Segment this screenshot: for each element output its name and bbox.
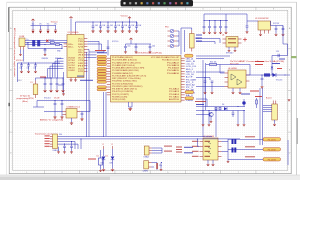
svg-text:DCD: DCD (78, 68, 84, 70)
svg-text:P1.5/MOSI AIN5 (KEY4 D6): P1.5/MOSI AIN5 (KEY4 D6) (112, 69, 139, 72)
ground (210, 92, 213, 95)
MCU pin name text (112, 56, 180, 101)
U4 ground a (228, 47, 231, 52)
zener D8 (271, 67, 273, 76)
wire (17, 63, 19, 82)
ground (202, 32, 205, 35)
IC U6 opamp (228, 70, 246, 88)
part Q1 (99, 158, 103, 165)
LED D1 pins (168, 30, 177, 32)
ground (208, 124, 211, 127)
net port pill L7 (97, 73, 107, 75)
svg-text:P1.3 AIN3 (KEY2 LED-4): P1.3 AIN3 (KEY2 LED-4) (112, 64, 135, 67)
label C1 (95, 25, 98, 27)
capacitor CB1 (232, 111, 235, 118)
ground under U5 (259, 34, 262, 37)
label RS1 (50, 40, 54, 42)
ground under CM2 (49, 90, 52, 93)
svg-text:U1 CH340G: U1 CH340G (68, 32, 79, 34)
svg-text:P1.6/MISO AIN6 (D7): P1.6/MISO AIN6 (D7) (112, 72, 133, 75)
wire U7 left riser (197, 138, 200, 146)
capacitor CA2 (211, 81, 214, 92)
wire (129, 102, 133, 107)
U6 internal symbols (231, 74, 242, 85)
svg-text:P2.5/A13: P2.5/A13 (169, 90, 180, 93)
LED D1 (170, 29, 174, 33)
wire (282, 26, 284, 45)
svg-text:104: 104 (95, 25, 98, 27)
ground under CL3 (34, 71, 37, 74)
label C3 (110, 25, 113, 27)
ground under U6 (231, 88, 241, 94)
power flag top mid (128, 17, 131, 19)
wire (87, 41, 101, 50)
svg-text:104: 104 (131, 25, 134, 27)
LED D4 pins (168, 45, 177, 47)
svg-text:VCC: VCC (78, 38, 84, 40)
ground (102, 169, 105, 172)
crystal Y2 (144, 161, 149, 169)
wire VCC rail (37, 100, 90, 102)
power flag P1 (40, 26, 42, 31)
capacitor C5 (121, 21, 124, 30)
capacitor CT3 (214, 20, 217, 32)
wire rows (25, 40, 67, 44)
svg-text:P1.0/T2 AIN0 (LED-D1): P1.0/T2 AIN0 (LED-D1) (112, 56, 133, 59)
wire (58, 147, 60, 151)
LED D2 (170, 34, 174, 38)
ground (57, 151, 60, 154)
wire (222, 139, 229, 160)
svg-text:104: 104 (102, 25, 105, 27)
note red line (230, 60, 285, 65)
label D+ (27, 39, 29, 45)
J1 pins and labels (45, 135, 53, 146)
diode D5 (273, 73, 277, 77)
U5 pins (261, 30, 269, 34)
svg-text:P3_OUT1: P3_OUT1 (268, 139, 276, 141)
resistor R10 (206, 63, 220, 65)
svg-text:J-USB: J-USB (19, 36, 25, 38)
label DL2 (106, 144, 114, 165)
svg-text:PSEN: PSEN (186, 100, 194, 102)
net port pill L1 (97, 55, 107, 57)
wire bus pair (260, 88, 263, 145)
svg-text:P2.7/A15: P2.7/A15 (169, 95, 180, 98)
svg-text:P1.4/SS AIN4 (KEY3 LED-5 SPI): P1.4/SS AIN4 (KEY3 LED-5 SPI) (112, 67, 145, 70)
IC U1 pin name text (68, 38, 85, 73)
label CL1 (20, 67, 23, 69)
buzzer wires (263, 106, 272, 112)
label rows right (241, 91, 262, 98)
svg-text:104: 104 (27, 67, 30, 69)
label VCC5.0 blue (112, 41, 118, 43)
wire (272, 44, 288, 76)
wire (161, 148, 163, 153)
wire (75, 138, 82, 149)
capacitor CU2 (274, 28, 277, 36)
net port pill L9 (97, 78, 107, 80)
svg-text:U6 LM358: U6 LM358 (228, 68, 237, 70)
net port pill L4 (97, 63, 107, 65)
ground (124, 51, 127, 54)
wire (107, 40, 109, 56)
svg-text:U4: U4 (222, 35, 224, 37)
label U4 (222, 35, 224, 37)
crystal Y1 (144, 146, 149, 155)
capacitor CR2 (149, 44, 152, 51)
net port pill L6 (97, 70, 107, 72)
net port pill L8 (97, 76, 107, 78)
title text vertical (13, 28, 16, 77)
svg-text:ALE/PROG: ALE/PROG (169, 98, 179, 101)
net pill OUT2 (263, 148, 281, 151)
ground (134, 51, 137, 54)
ground under CL1 (20, 71, 23, 74)
Y2 pins (149, 163, 152, 168)
wire long bus (58, 136, 241, 139)
ground under CM1 (43, 90, 46, 93)
wire (18, 62, 61, 64)
ground (62, 93, 65, 96)
capacitor CL2 (27, 62, 30, 70)
svg-text:RXD: RXD (78, 44, 84, 46)
svg-text:P0.1/AD1 LCD-D1: P0.1/AD1 LCD-D1 (162, 59, 180, 62)
ground right of U7 (227, 160, 230, 164)
MCU pins (107, 58, 185, 100)
label CL2 (27, 67, 30, 69)
svg-text:VCC3.3: VCC3.3 (276, 80, 282, 82)
wire down (23, 50, 25, 62)
pill wire labels (245, 136, 255, 157)
label (128, 46, 131, 48)
svg-text:P1.7/SCK AIN7 (LED-D8 SPI CLK: P1.7/SCK AIN7 (LED-D8 SPI CLK X) (112, 74, 147, 77)
LED D3 pins (168, 40, 177, 42)
svg-text:GND-1: GND-1 (17, 80, 22, 82)
ground under U7 (206, 160, 214, 166)
svg-text:104: 104 (152, 46, 155, 48)
svg-text:VCC5.0: VCC5.0 (16, 60, 23, 62)
ground under U1 b (74, 79, 77, 82)
capacitor C8 (54, 100, 57, 116)
svg-text:VCC5.0: VCC5.0 (51, 21, 58, 23)
svg-text:DSR#: DSR# (69, 70, 77, 72)
svg-text:MCS-51 development board power: MCS-51 development board power supply sc… (13, 28, 16, 77)
label CL3 (34, 67, 37, 69)
svg-text:LED_A: LED_A (186, 57, 194, 60)
ground (202, 124, 205, 127)
capacitor C10 (80, 112, 83, 122)
wire bus (203, 60, 206, 137)
ground (260, 86, 263, 89)
label J2 (19, 36, 25, 38)
ground (237, 124, 240, 127)
wire (196, 114, 209, 116)
label U1 (68, 32, 79, 34)
IC U4 (226, 37, 238, 48)
svg-text:TXD: TXD (78, 41, 84, 43)
ground under C8 (53, 116, 56, 119)
wire (204, 20, 228, 22)
svg-text:D1: D1 (106, 156, 108, 158)
label C6 (131, 25, 134, 27)
ground under C2 (99, 30, 102, 33)
Y1 pins (149, 148, 152, 153)
svg-text:F1: F1 (31, 82, 33, 84)
svg-text:R1 1k: R1 1k (50, 40, 54, 42)
resistor R17 (264, 73, 270, 76)
svg-text:5V0: 5V0 (59, 134, 62, 136)
label (276, 80, 282, 82)
wire (196, 99, 207, 107)
ground under CM4 (61, 90, 64, 93)
wire (215, 109, 216, 138)
label (276, 51, 279, 53)
wire (75, 22, 77, 31)
svg-text:104: 104 (110, 25, 113, 27)
diode D6 (224, 107, 227, 110)
net pill OUT3 (263, 158, 281, 161)
label (17, 80, 22, 82)
svg-text:104: 104 (20, 67, 23, 69)
wire (76, 21, 138, 23)
ESD part DZ1 (32, 40, 35, 46)
LED DL2 (111, 146, 115, 169)
svg-text:C15: C15 (276, 51, 279, 53)
net label 2 (39, 23, 42, 25)
wire pair (181, 28, 185, 55)
wire (204, 14, 245, 21)
IC U7 optocoupler (203, 138, 218, 160)
svg-text:104: 104 (138, 25, 141, 27)
svg-text:DC-IN: DC-IN (54, 98, 60, 100)
labels right of Y1 (164, 146, 182, 153)
labels left of U7 (184, 147, 193, 154)
svg-text:VCC5.0: VCC5.0 (120, 16, 128, 18)
label VCC5.0 (51, 21, 58, 23)
capacitor C7 (135, 21, 138, 30)
label VCC5.0 (44, 98, 51, 100)
wire (58, 142, 79, 145)
capacitor CM2 (50, 77, 53, 89)
U7 internal text (205, 141, 211, 157)
transistor Q1 (209, 112, 213, 116)
capacitor C4 (114, 21, 117, 30)
capacitor CM4 (62, 77, 65, 89)
U1-MCU wires (87, 50, 97, 58)
label D6 (222, 104, 224, 106)
svg-text:USB-DP: USB-DP (55, 58, 61, 60)
ground (219, 32, 222, 35)
svg-text:DSR: DSR (78, 63, 84, 65)
capture toolbar (121, 0, 194, 6)
ground right edge (288, 99, 291, 102)
svg-text:22p: 22p (159, 165, 162, 167)
svg-text:VCC5.0: VCC5.0 (44, 98, 51, 100)
capacitor CE1 pair (232, 139, 237, 144)
label C2 (102, 25, 105, 27)
red plus mark (243, 38, 247, 42)
capacitor CX0 red (156, 163, 157, 169)
power flag P2 (47, 26, 49, 31)
label under J1 (53, 150, 60, 152)
MCU right net names (186, 57, 197, 102)
ground (213, 32, 216, 35)
MCU U3 STC89C52 (111, 56, 182, 103)
capacitor CL3 (34, 62, 37, 70)
label VCC5.0 red (16, 60, 23, 62)
net port pill L5 (97, 67, 107, 69)
ground under C3 (106, 30, 109, 33)
U7 left labels (192, 141, 199, 157)
label 5V0 (59, 134, 62, 136)
label R10 (210, 62, 216, 64)
label C4 (117, 25, 120, 27)
wire right edge (287, 140, 289, 165)
wire (245, 14, 258, 26)
U4 ground b (234, 47, 237, 52)
wire (196, 39, 220, 45)
svg-text:SPX1117: SPX1117 (226, 53, 233, 55)
power port symbol 4 (54, 30, 57, 33)
ground (148, 51, 151, 54)
resistor R15 (219, 107, 221, 110)
U6 pins (225, 73, 250, 87)
ground (224, 32, 227, 35)
capacitor CA3 (261, 74, 264, 86)
connector J2 USB (19, 38, 25, 47)
capacitor CL1 (20, 62, 23, 70)
resistor RS2 (56, 44, 60, 46)
ground (160, 169, 163, 172)
label U5 (255, 18, 269, 20)
svg-text:R10 10k: R10 10k (210, 62, 216, 64)
LED D2 pins (168, 35, 177, 37)
svg-text:P3_OUT3: P3_OUT3 (268, 159, 276, 161)
svg-text:P2.6/A14: P2.6/A14 (169, 93, 180, 96)
net port pill L12 (97, 89, 107, 91)
sheet frame (9, 7, 291, 174)
svg-text:P1.2 AIN2 (KEY1 LED-D3 X): P1.2 AIN2 (KEY1 LED-D3 X) (112, 61, 141, 64)
power port symbol 3 (47, 30, 50, 33)
wire out (250, 74, 291, 76)
ground under J2 (19, 50, 22, 57)
net port pill L2 (97, 58, 107, 60)
U1 lower-left wire bundle (48, 59, 64, 78)
svg-text:U3 STC89C52RC (LQFP-44): U3 STC89C52RC (LQFP-44) (136, 53, 162, 55)
power flag reset (129, 38, 132, 40)
capacitor CA1 (204, 77, 207, 92)
svg-text:104: 104 (117, 25, 120, 27)
capacitor CD1 (278, 54, 279, 57)
power flag P3 (55, 26, 57, 31)
svg-text:Buzzer: Buzzer (266, 97, 272, 100)
part RN2 pins (191, 30, 193, 52)
label under Y2 (143, 170, 149, 172)
U7 pins (200, 142, 222, 157)
svg-text:USB-DM: USB-DM (42, 58, 49, 60)
ground (208, 32, 211, 35)
ground under CL2 (27, 71, 30, 74)
wire drops (202, 106, 244, 124)
wire (157, 163, 161, 171)
LED D7 (242, 99, 245, 107)
label (152, 46, 155, 48)
label 3V3 (273, 23, 279, 25)
svg-text:10u: 10u (128, 46, 131, 48)
junction dots (27, 42, 62, 49)
U7 internal symbols (208, 142, 211, 154)
connector J1 (53, 134, 58, 149)
IC U1 CH340G (67, 35, 84, 78)
svg-text:104: 104 (124, 25, 127, 27)
wire (70, 19, 72, 31)
svg-text:P0.4/AD4: P0.4/AD4 (168, 67, 180, 70)
ground under CM3 (55, 90, 58, 93)
LED D3 (170, 39, 174, 43)
wire (225, 14, 227, 21)
power flag VCC (31, 19, 34, 30)
svg-text:VCC5.0: VCC5.0 (112, 41, 118, 43)
wire (220, 65, 250, 76)
svg-text:D6: D6 (222, 104, 224, 106)
svg-text:P0.6/AD6: P0.6/AD6 (167, 72, 180, 75)
red X no-connect (46, 40, 48, 42)
ground under C6 (128, 30, 131, 33)
ground under buzzer (273, 120, 276, 126)
svg-text:USB-A: USB-A (144, 155, 150, 158)
label sense (88, 159, 96, 160)
buzzer LS1 (272, 101, 278, 121)
ground under U1 a (69, 79, 72, 82)
label red (40, 77, 46, 78)
capacitor C3 (107, 21, 110, 30)
capacitor CJ2 (70, 141, 73, 151)
U4 internal text (228, 38, 236, 43)
svg-text:P2_0AB: P2_0AB (186, 78, 197, 81)
wire (196, 106, 245, 108)
label rows (195, 101, 206, 105)
svg-text:104: 104 (34, 67, 37, 69)
capacitor CX1 (152, 162, 163, 167)
ground under MCU (128, 108, 132, 111)
label U7 (203, 136, 214, 138)
wire (152, 148, 162, 153)
wire U1 left down (58, 72, 64, 93)
ground (111, 169, 114, 172)
wires (36, 78, 53, 81)
net port pill L11 (97, 86, 107, 88)
label VCC5.0 top (120, 16, 128, 18)
capacitor CT1 (203, 20, 206, 32)
ground under Q1 (210, 117, 213, 123)
resistor R16 (256, 98, 258, 108)
ground under C5 (121, 30, 124, 33)
capacitor CJ1 (63, 144, 66, 151)
capacitor CT2 (208, 20, 211, 32)
svg-text:P3.7/RD (LCD-RW): P3.7/RD (LCD-RW) (112, 99, 126, 101)
capacitor CU1 (245, 26, 248, 34)
label RN1 (165, 27, 169, 29)
label U2 (67, 106, 80, 109)
svg-text:EA_V: EA_V (186, 94, 194, 97)
LED D4 (170, 44, 174, 48)
capacitor CT4 (219, 20, 222, 32)
ground (203, 92, 206, 95)
svg-text:VCC3.3: VCC3.3 (273, 23, 279, 25)
ground (44, 54, 47, 57)
label rows (95, 50, 107, 53)
